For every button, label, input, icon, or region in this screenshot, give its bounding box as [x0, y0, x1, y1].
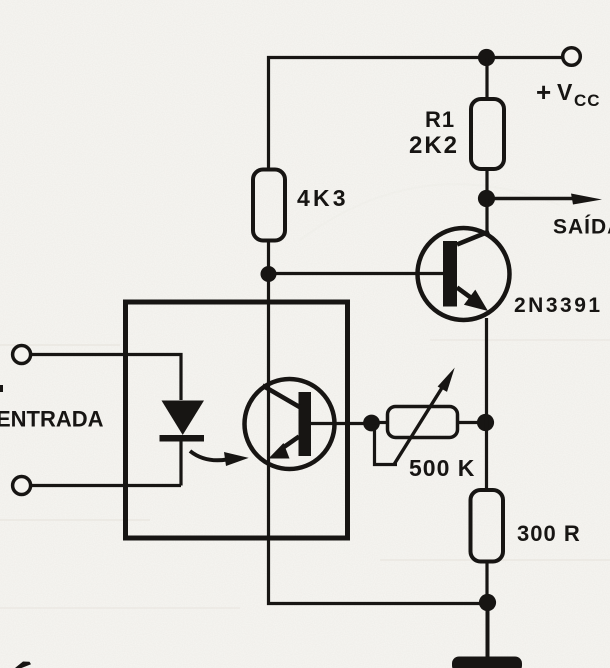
- wire node to Q1 collector: [485, 199, 488, 234]
- svg-text:500 K: 500 K: [409, 455, 475, 481]
- svg-text:4K3: 4K3: [297, 185, 349, 211]
- wire input top: [31, 355, 182, 401]
- optocoupler box: [126, 302, 348, 538]
- svg-text:CC: CC: [574, 91, 601, 110]
- svg-text:R1: R1: [425, 107, 455, 132]
- wire node to pot: [372, 421, 388, 424]
- ghost show-through marks: [0, 184, 610, 608]
- terminal input top: [13, 346, 31, 364]
- node pot right: [477, 414, 494, 431]
- wire output arrow: [494, 197, 576, 200]
- svg-text:300 R: 300 R: [517, 521, 581, 546]
- potentiometer 500K: [375, 368, 458, 465]
- svg-text:2N3391: 2N3391: [514, 294, 603, 317]
- resistor 300R: [471, 490, 504, 562]
- LED D1: [160, 401, 205, 442]
- stray mark left edge: [0, 385, 3, 392]
- resistor 4K3: [253, 170, 285, 241]
- svg-text:+: +: [536, 77, 551, 107]
- node pot left: [363, 415, 380, 432]
- resistor R1: [471, 99, 504, 169]
- wire Q2 base to pot: [309, 422, 372, 425]
- svg-text:V: V: [557, 79, 573, 105]
- wire 300R to ground node: [485, 562, 488, 603]
- light arrow LED to phototransistor: [190, 451, 249, 466]
- svg-text:ENTRADA: ENTRADA: [0, 407, 104, 432]
- wire pot to right node: [458, 421, 487, 424]
- wire node to 300R: [485, 423, 488, 490]
- wire Q1 emitter down: [485, 318, 488, 423]
- node collector/output: [478, 190, 495, 207]
- node Vcc junction: [478, 49, 495, 66]
- node ground rail: [479, 594, 496, 611]
- wire R1 to collector node: [485, 169, 488, 199]
- wire LED cathode down: [179, 442, 182, 486]
- terminal +Vcc: [563, 48, 581, 66]
- wire base of Q1: [269, 272, 444, 275]
- node 4K3 bottom: [261, 266, 277, 282]
- wire Vcc to R1: [485, 58, 488, 100]
- ground: [452, 657, 522, 668]
- transistor Q1 2N3391: [418, 228, 510, 320]
- svg-text:2K2: 2K2: [409, 132, 459, 159]
- figure number mark (cut off): [15, 662, 31, 668]
- wire top rail: [269, 58, 562, 171]
- wire to ground: [486, 603, 490, 659]
- wire 4K3 down through opto to bottom rail: [269, 241, 488, 604]
- wire input bottom: [31, 484, 182, 487]
- label +Vcc: [536, 77, 601, 110]
- terminal input bottom: [13, 477, 31, 495]
- svg-text:SAÍDA: SAÍDA: [553, 216, 610, 239]
- phototransistor Q2: [245, 379, 335, 469]
